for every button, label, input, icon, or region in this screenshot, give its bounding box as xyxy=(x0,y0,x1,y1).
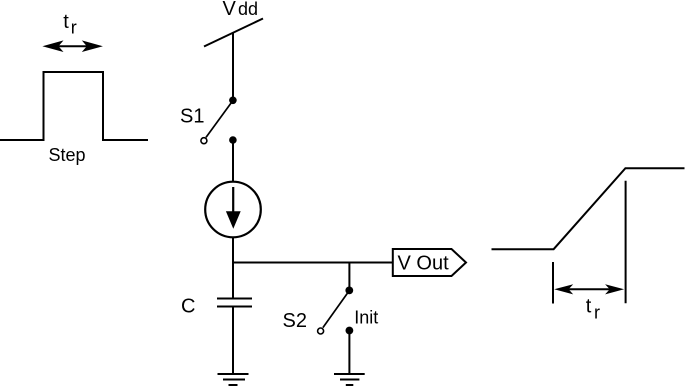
svg-text:r: r xyxy=(71,18,77,38)
ground (below C) xyxy=(218,374,249,385)
tick mark left (ramp start) xyxy=(552,262,554,304)
wire Vdd to S1 xyxy=(232,33,234,100)
capacitor C bottom plate xyxy=(217,306,252,308)
switch S1 blade xyxy=(206,103,231,137)
svg-text:C: C xyxy=(181,296,195,318)
svg-text:dd: dd xyxy=(238,0,258,19)
svg-text:r: r xyxy=(594,303,600,323)
waveform Step pulse xyxy=(0,72,148,140)
svg-text:S2: S2 xyxy=(283,310,307,332)
svg-text:Init: Init xyxy=(354,308,378,328)
junction dot S1 bottom xyxy=(229,136,237,144)
wire current source to capacitor (vertical) xyxy=(232,238,234,299)
wire capacitor to ground xyxy=(232,307,234,374)
svg-text:V: V xyxy=(223,0,237,20)
svg-text:V Out: V Out xyxy=(398,253,450,275)
arrow t_r (right, double-headed) xyxy=(554,284,624,294)
current source I1 arrow xyxy=(226,187,241,229)
label t_r (right) xyxy=(586,296,600,323)
current source I1 circle xyxy=(205,182,261,238)
V Out flag xyxy=(393,249,466,276)
arrow t_r (left, double-headed) xyxy=(42,40,103,52)
wire node to S2 xyxy=(348,263,350,291)
waveform ramp xyxy=(492,168,685,249)
junction dot S1 top xyxy=(229,97,237,105)
label t_r (left) xyxy=(63,11,77,38)
tick mark right (ramp end) xyxy=(625,181,627,304)
power Vdd rail slash xyxy=(204,19,263,47)
switch S2 blade xyxy=(323,293,348,327)
junction dot S2 top xyxy=(345,287,353,295)
svg-text:S1: S1 xyxy=(180,106,204,128)
label Vdd xyxy=(223,0,259,20)
svg-text:t: t xyxy=(63,11,69,33)
switch S2 open contact xyxy=(318,328,324,334)
wire node to V Out (horizontal) xyxy=(232,262,393,264)
ground (below Init) xyxy=(334,374,365,385)
capacitor C top plate xyxy=(217,298,252,300)
switch S1 open contact xyxy=(201,138,207,144)
junction dot Init xyxy=(346,327,354,335)
svg-text:Step: Step xyxy=(49,145,86,165)
svg-text:t: t xyxy=(586,296,592,318)
wire S1 to current source xyxy=(232,140,234,182)
wire Init to ground xyxy=(348,331,350,374)
